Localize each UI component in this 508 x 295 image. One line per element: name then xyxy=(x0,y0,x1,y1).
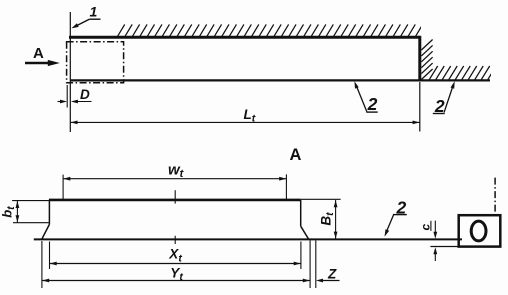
callout 1 leader xyxy=(71,19,100,28)
section right side edge xyxy=(300,200,302,226)
hatching above right ground line xyxy=(429,66,496,80)
callout 2 leader (beam bottom) xyxy=(354,81,377,112)
dimension line L_t xyxy=(70,121,420,125)
svg-text:bt: bt xyxy=(0,206,17,218)
dimension Y_t extension lines xyxy=(41,241,43,288)
svg-text:1: 1 xyxy=(90,3,98,19)
svg-text:Xt: Xt xyxy=(168,247,182,265)
clamp bolt centreline xyxy=(494,178,496,215)
dimension W_t extension lines xyxy=(62,175,64,200)
beam right end edge xyxy=(418,36,421,81)
dimension b_t arrows xyxy=(16,201,20,223)
section right chamfer xyxy=(301,226,309,239)
svg-text:Z: Z xyxy=(327,266,337,281)
svg-text:2: 2 xyxy=(434,96,445,116)
beam top edge xyxy=(69,36,420,39)
dimension D arrows xyxy=(58,100,92,104)
centreline tick lower xyxy=(174,236,176,244)
svg-text:wt: wt xyxy=(168,161,185,180)
dimension Z second extension line xyxy=(315,241,317,289)
dimension c tails and arrows xyxy=(433,221,437,261)
dimension line W_t xyxy=(63,177,286,181)
dimension line Y_t xyxy=(42,279,310,283)
extension line at beam right end xyxy=(419,82,421,132)
svg-text:A: A xyxy=(33,45,44,62)
hatching right wall at beam end xyxy=(421,40,432,80)
dimension X_t extension lines xyxy=(49,242,51,270)
callout 2 leader (right ground) xyxy=(433,81,455,113)
centreline tick upper xyxy=(174,190,176,203)
beam bottom edge and ground line xyxy=(70,79,490,81)
svg-text:Yt: Yt xyxy=(170,265,183,283)
svg-text:Bt: Bt xyxy=(319,212,337,226)
dimension Z tail arrow xyxy=(316,279,340,283)
dimension line X_t xyxy=(50,262,301,266)
section left side edge xyxy=(48,200,50,225)
svg-text:Lt: Lt xyxy=(244,107,256,125)
phantom block outline (dash-dot) xyxy=(67,42,124,83)
wire extension line at beam left face xyxy=(69,12,71,132)
clamp slot oval xyxy=(471,221,486,241)
clamp body box xyxy=(459,215,501,246)
svg-text:2: 2 xyxy=(367,94,378,114)
section left chamfer xyxy=(42,224,50,239)
dimension D extension line xyxy=(66,85,68,108)
dimension b_t bottom extension xyxy=(13,222,49,224)
svg-text:D: D xyxy=(80,87,90,102)
view direction arrow xyxy=(25,60,60,66)
clamp bottom line extension xyxy=(430,246,458,248)
section top edge xyxy=(49,199,301,202)
dimension B_t arrows xyxy=(334,200,338,239)
hatching above beam top edge xyxy=(118,24,423,36)
dimension B_t top extension xyxy=(301,198,341,200)
callout 2 leader (table surface) xyxy=(385,214,407,237)
svg-text:A: A xyxy=(290,146,302,164)
table surface line xyxy=(34,238,462,240)
dimension b_t top extension xyxy=(12,200,49,202)
svg-text:2: 2 xyxy=(396,197,407,217)
